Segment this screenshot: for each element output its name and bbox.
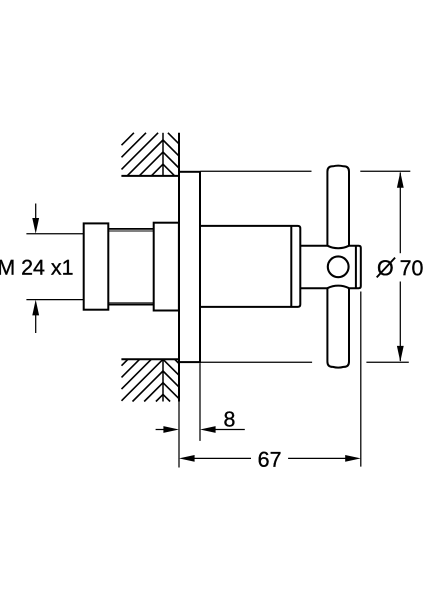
wall surface / escutcheon left edge [178,133,180,402]
dim 8 arrows [156,429,166,431]
M24 dimension extension lines [26,233,83,235]
handle hub (front arm of cross handle) [300,246,361,289]
wall top opening edge [121,175,179,177]
svg-text:8: 8 [223,407,235,431]
svg-text:M 24 x1: M 24 x1 [0,256,74,280]
handle bar upper arm [327,166,349,246]
escutcheon plate [179,172,200,362]
dim 8 right extension line [199,363,201,441]
svg-text:67: 67 [258,448,282,472]
wall section top (herringbone hatch) [122,133,179,176]
handle hub end-cap line [355,246,357,289]
dim 67 right extension line [360,292,362,467]
diameter 70 dimension line with arrows [399,173,401,254]
valve body step line [290,226,292,307]
thread section outer lines [108,228,153,230]
wall bottom hatch divider line [162,359,164,401]
handle screw cover circle [328,256,349,277]
dim 67 dimension line with arrows [179,455,195,462]
wall bottom opening edge [121,358,179,360]
thread section minor-diameter lines [108,230,153,232]
valve body [200,226,300,307]
diameter 70 extension lines [201,170,312,172]
handle bar lower arm [327,288,349,367]
left extension line (wall surface, for dims 8 and 67) [178,402,180,468]
thread collar (at wall) [154,223,179,311]
wall top hatch divider line [162,133,164,176]
M24 top arrow [35,204,37,220]
thread end cap (left) [84,223,109,309]
M24 bottom arrow [35,314,37,333]
wall section bottom (herringbone hatch) [122,359,179,401]
